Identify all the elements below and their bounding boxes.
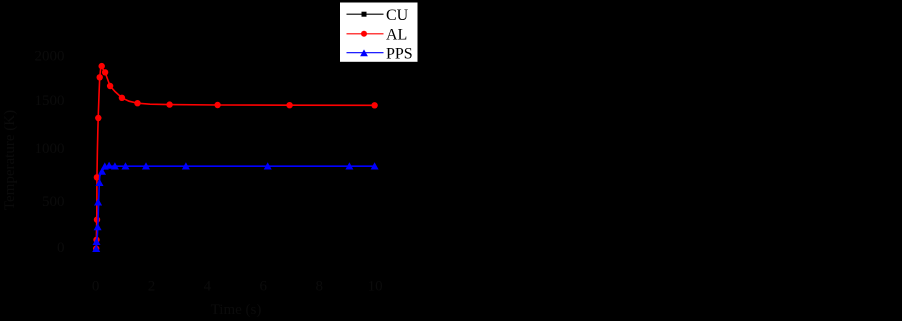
svg-text:CU: CU	[386, 7, 409, 24]
svg-text:0: 0	[92, 279, 100, 295]
svg-text:8: 8	[315, 279, 323, 295]
svg-text:10: 10	[368, 279, 383, 295]
svg-text:Temperature (K): Temperature (K)	[2, 110, 18, 210]
svg-text:Time (s): Time (s)	[211, 302, 262, 318]
svg-text:500: 500	[42, 194, 65, 210]
svg-text:PPS: PPS	[386, 45, 413, 62]
svg-text:1000: 1000	[35, 141, 65, 157]
svg-text:AL: AL	[386, 27, 407, 44]
svg-text:2: 2	[148, 279, 156, 295]
svg-text:2000: 2000	[35, 48, 65, 64]
svg-text:1500: 1500	[35, 93, 65, 109]
svg-text:0: 0	[57, 240, 65, 256]
svg-text:6: 6	[260, 279, 268, 295]
svg-text:4: 4	[204, 279, 212, 295]
